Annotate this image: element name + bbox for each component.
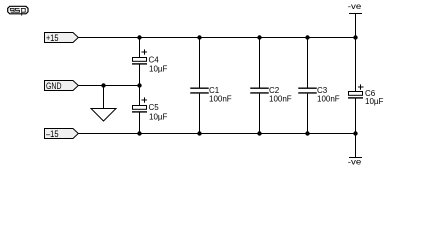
- svg-text:C5: C5: [149, 103, 160, 112]
- junction C1 / +15 rail: [197, 35, 201, 39]
- wire +15 rail: [79, 37, 356, 39]
- wire GND: [79, 85, 140, 87]
- junction C3 / +15 rail: [305, 35, 309, 39]
- capacitor C6 10µF: [348, 38, 384, 134]
- junction C6 / -15 rail: [353, 131, 357, 135]
- svg-text:100nF: 100nF: [209, 95, 232, 104]
- svg-text:10µF: 10µF: [149, 65, 168, 74]
- terminal tag -15: [45, 129, 79, 141]
- svg-text:GND: GND: [46, 81, 62, 92]
- junction GND / C4-C5: [137, 83, 141, 87]
- svg-text:C4: C4: [149, 56, 160, 65]
- junction C4 / +15 rail: [137, 35, 141, 39]
- junction C2 / +15 rail: [257, 35, 261, 39]
- junction C1 / -15 rail: [197, 131, 201, 135]
- svg-text:-ve: -ve: [348, 157, 362, 167]
- capacitor C3 100nF: [298, 38, 340, 134]
- svg-text:100nF: 100nF: [317, 95, 340, 104]
- svg-text:10µF: 10µF: [365, 97, 384, 106]
- terminal tag +15: [45, 33, 79, 45]
- svg-text:-ve: -ve: [348, 1, 362, 11]
- terminal -ve bottom: [348, 134, 362, 167]
- svg-text:–15: –15: [46, 129, 59, 140]
- capacitor C1 100nF: [190, 38, 232, 134]
- junction C6 / +15 rail: [353, 35, 357, 39]
- capacitor C4 10µF: [132, 38, 168, 86]
- capacitor C5 10µF: [132, 86, 168, 134]
- junction C5 / -15 rail: [137, 131, 141, 135]
- terminal tag GND: [45, 81, 79, 93]
- wire -15 rail: [79, 133, 356, 135]
- junction C2 / -15 rail: [257, 131, 261, 135]
- svg-text:10µF: 10µF: [149, 113, 168, 122]
- svg-text:+15: +15: [46, 33, 59, 44]
- ground: [91, 86, 116, 122]
- svg-text:100nF: 100nF: [269, 95, 292, 104]
- ESP logo: [8, 6, 28, 15]
- terminal -ve top: [348, 1, 362, 38]
- capacitor C2 100nF: [250, 38, 292, 134]
- junction GND / ground: [101, 83, 105, 87]
- junction C3 / -15 rail: [305, 131, 309, 135]
